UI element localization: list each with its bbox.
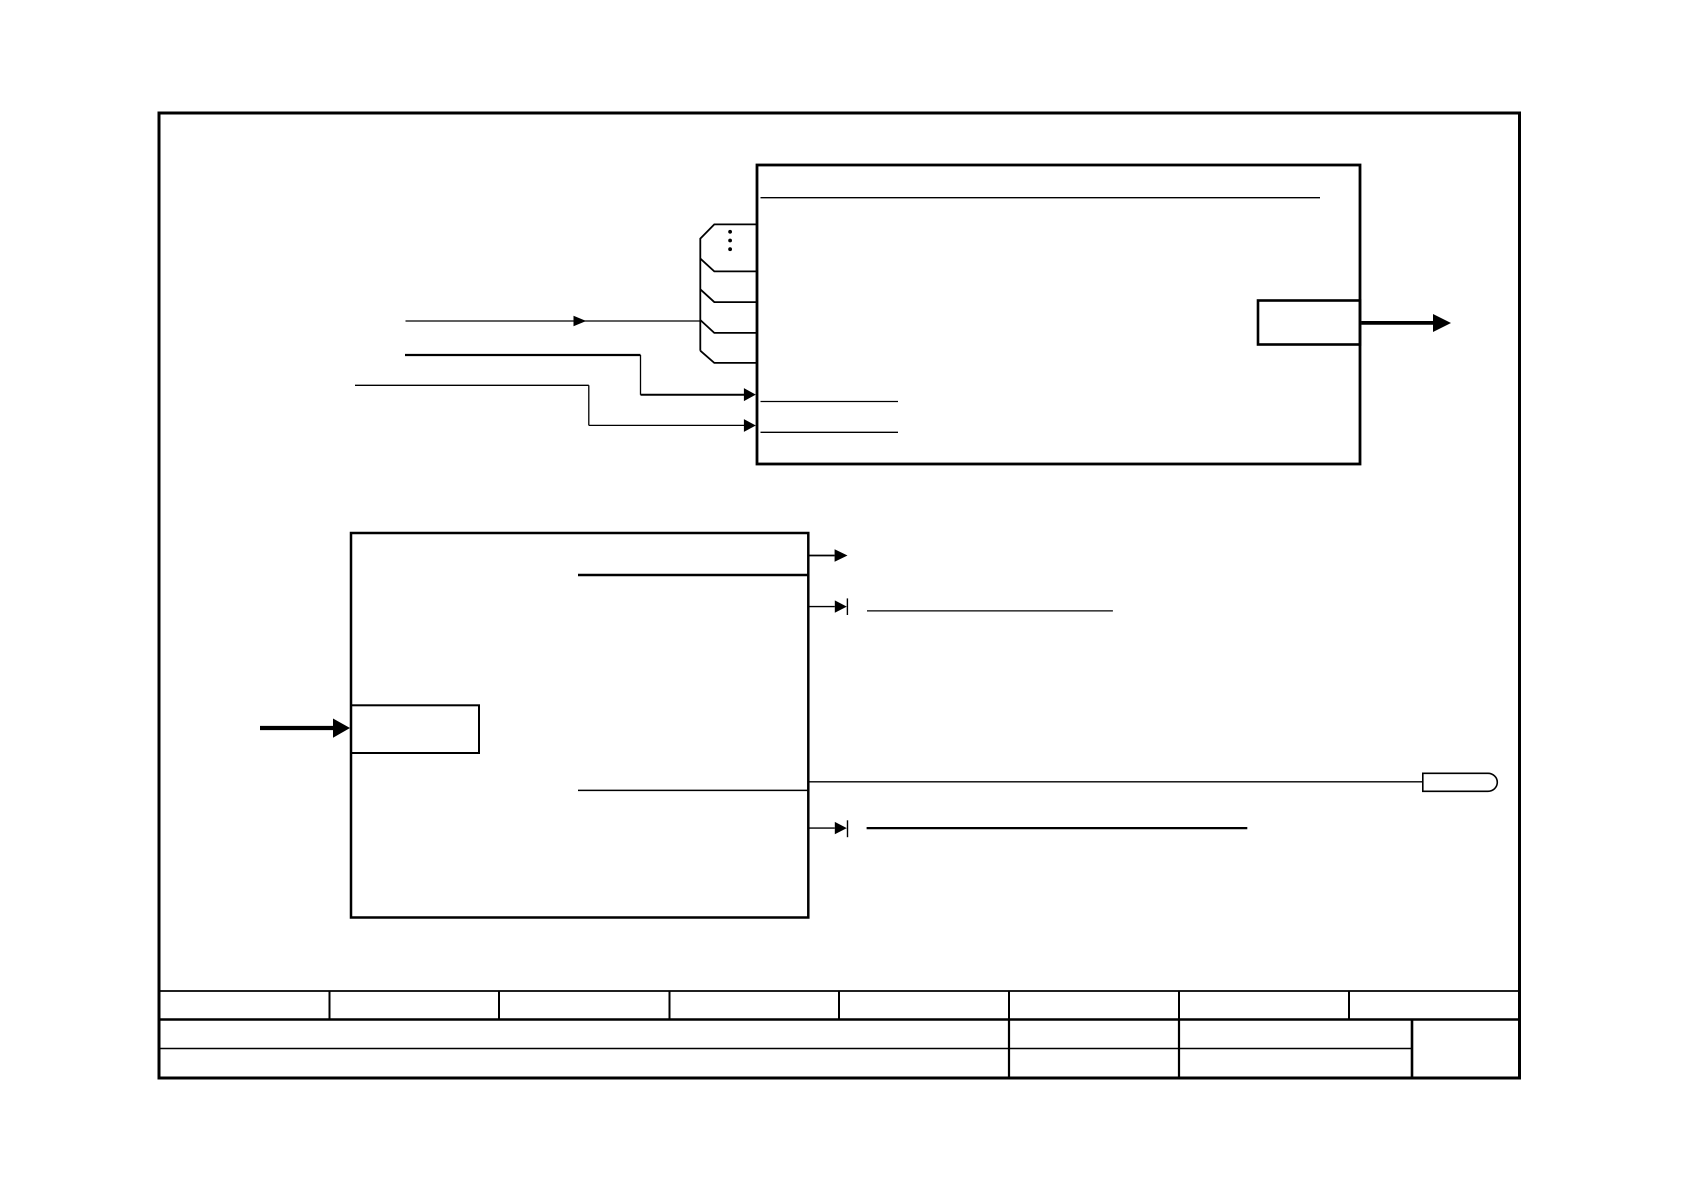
FB1 input label underline 2 <box>761 431 899 433</box>
title block header bottom rule <box>159 1018 1520 1021</box>
FB1 output arrowhead <box>1433 314 1451 332</box>
output 3 label underline (bold) <box>867 827 1248 829</box>
FB2 output wire 1 <box>810 555 835 557</box>
FB1 title underline <box>761 197 1321 199</box>
connector capsule (signal destination) <box>1423 773 1497 791</box>
FB2 internal separator line 2 <box>578 789 808 791</box>
title block lower divider 3 (page cell) <box>1411 1020 1414 1077</box>
FB2 output wire 3 <box>810 827 835 829</box>
function block FB2 (lower) <box>351 533 808 918</box>
FB2 internal separator line (bold) <box>578 574 808 577</box>
title block header cell divider 4 <box>838 991 840 1020</box>
selector stack page 2 <box>700 259 756 272</box>
output 2 label underline <box>867 610 1113 612</box>
input signal wire 2 (bold segment) <box>405 354 641 356</box>
input signal wire 1 (to selector stack) <box>406 320 701 322</box>
function block FB1 (upper) <box>757 165 1360 464</box>
title block lower divider 1 <box>1008 1020 1010 1077</box>
FB2 long output wire to connector <box>810 781 1423 783</box>
wire 2 horizontal segment to FB1 <box>641 394 745 396</box>
title block middle rule <box>159 1048 1412 1050</box>
title block header cell divider 6 <box>1178 991 1180 1020</box>
wire 3 horizontal segment to FB1 <box>589 424 745 426</box>
title block lower divider 2 <box>1178 1020 1180 1077</box>
FB2 output 3 stop bar <box>847 820 849 837</box>
FB2 input signal wire (bold) <box>260 726 334 730</box>
input signal wire 3 <box>355 384 589 386</box>
wire 2 vertical segment <box>640 355 642 395</box>
FB1 output signal wire (thick) <box>1362 321 1434 325</box>
selector stack page 4 <box>700 320 756 333</box>
FB2 output wire 2 <box>810 606 835 608</box>
title block header cell divider 5 <box>1008 991 1010 1020</box>
FB2 input parameter box <box>351 705 479 753</box>
wire 3 arrowhead at FB1 border <box>744 419 756 432</box>
FB1 output parameter box <box>1258 301 1360 345</box>
title block header cell divider 7 <box>1348 991 1350 1020</box>
data-set selector stack outline (top page) <box>700 224 756 350</box>
FB2 output 2 stop bar <box>846 598 848 615</box>
wire 3 vertical segment <box>588 385 590 425</box>
FB2 output 2 arrowhead <box>835 600 847 612</box>
FB1 input label underline 1 <box>761 401 899 403</box>
FB2 input arrowhead <box>333 719 350 738</box>
title block header cell divider 2 <box>498 991 500 1020</box>
title block header cell divider 3 <box>669 991 671 1020</box>
wire 1 mid arrowhead <box>574 316 587 327</box>
selector stack ellipsis dots <box>728 230 732 251</box>
FB2 output 3 arrowhead <box>835 822 847 834</box>
outer drawing frame <box>159 113 1520 1078</box>
selector stack page 3 <box>700 289 756 302</box>
FB2 output 1 arrowhead <box>835 549 848 561</box>
selector stack page 5 <box>700 351 756 363</box>
wire 2 arrowhead at FB1 border <box>744 388 756 401</box>
title block header cell divider 1 <box>329 991 331 1020</box>
title block header top rule <box>159 990 1520 992</box>
